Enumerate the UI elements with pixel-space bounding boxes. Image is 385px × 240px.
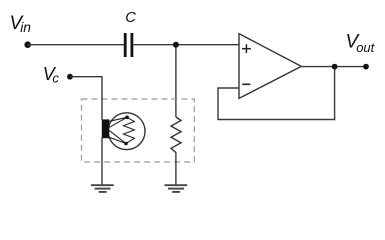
svg-text:C: C — [125, 10, 136, 26]
svg-text:Vout: Vout — [346, 31, 376, 54]
node Vin input terminal — [24, 41, 31, 48]
wire op-amp output to Vout terminal — [301, 66, 366, 68]
node Vout terminal — [363, 64, 369, 70]
lamp L1 filament end dots — [125, 116, 129, 120]
lamp L1 (bulb envelope) — [108, 113, 145, 150]
wire capacitor C to node A — [133, 44, 176, 46]
node A junction dot — [173, 42, 179, 48]
wire Vin terminal to capacitor C — [28, 44, 125, 46]
lamp L1 base — [102, 119, 110, 138]
node Vc control terminal — [67, 74, 73, 80]
svg-text:Vc: Vc — [43, 64, 60, 86]
op-amp plus marker — [242, 44, 251, 53]
op-amp minus marker — [242, 83, 250, 85]
wire node A to op-amp noninverting input — [176, 44, 240, 46]
ground (right, under R) — [165, 185, 188, 192]
wire lamp to ground — [101, 138, 103, 186]
lamp L1 lead wires — [109, 117, 127, 143]
svg-text:Vin: Vin — [10, 13, 32, 35]
op-amp U1 triangle — [239, 34, 301, 99]
wire Vc terminal to lamp — [70, 77, 102, 120]
wire feedback: output junction to inverting input — [218, 67, 335, 120]
wire node A down to resistor R — [175, 45, 177, 117]
resistor R (photoresistor) — [171, 117, 181, 152]
optocoupler enclosure (dashed box) — [82, 99, 195, 162]
ground (left, under lamp) — [91, 185, 114, 192]
lamp L1 filament — [124, 117, 135, 143]
capacitor C — [124, 33, 134, 57]
node output junction dot — [332, 64, 338, 70]
wire resistor R to ground — [175, 152, 177, 185]
